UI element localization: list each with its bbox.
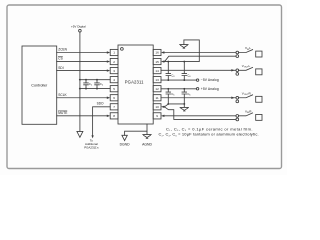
svg-text:C2: C2 [100, 82, 104, 87]
svg-text:14: 14 [155, 69, 159, 73]
jack VinR [236, 109, 262, 120]
pin 11 [153, 95, 161, 101]
svg-text:1: 1 [113, 51, 115, 55]
svg-text:C6: C6 [187, 92, 191, 97]
svg-text:VOUTR: VOUTR [242, 91, 252, 96]
svg-text:6: 6 [113, 96, 115, 100]
svg-text:SDO: SDO [97, 101, 104, 105]
wire VA- rail pin 13 [161, 78, 219, 82]
wire MUTE [57, 111, 110, 117]
arrow to additional supply [77, 131, 83, 137]
svg-text:VINL: VINL [245, 46, 251, 51]
svg-text:SCLK: SCLK [58, 93, 67, 97]
svg-text:+5V Digital: +5V Digital [71, 25, 86, 29]
svg-text:C2, C4, C6 = 10µF tantalum or: C2, C4, C6 = 10µF tantalum or aluminum e… [159, 132, 259, 138]
capacitor C3 [166, 62, 175, 82]
pin 9 [153, 113, 161, 119]
capacitor C1 [84, 79, 93, 90]
svg-text:PGA2311's: PGA2311's [84, 146, 99, 150]
wire SDI [57, 66, 110, 72]
svg-text:10: 10 [155, 105, 159, 109]
svg-text:−5V Analog: −5V Analog [201, 78, 219, 82]
wire CS [57, 57, 110, 63]
ground analog right [180, 104, 188, 111]
wire pin16 to input jack L [161, 51, 236, 53]
svg-text:9: 9 [156, 114, 158, 118]
pin 3 [110, 68, 118, 74]
jack VoutL [236, 64, 262, 75]
svg-text:Controller: Controller [31, 84, 48, 88]
capacitor C2 [95, 79, 104, 90]
svg-text:15: 15 [155, 60, 159, 64]
node R3-C5 [167, 88, 169, 90]
wire pin 9 to input jack R [161, 115, 236, 117]
svg-text:12: 12 [155, 87, 159, 91]
svg-text:CS: CS [58, 57, 62, 61]
node at DGND rail [79, 88, 81, 90]
border frame [7, 5, 282, 169]
pin 2 [110, 58, 118, 64]
ground AGND [142, 131, 152, 146]
pin 16 [153, 49, 161, 55]
wire jack L shunt to pin 15 [161, 56, 236, 63]
capacitor C4 [182, 62, 191, 82]
pin 15 [153, 58, 161, 64]
svg-text:16: 16 [155, 51, 159, 55]
svg-text:ZCEN: ZCEN [58, 48, 67, 52]
svg-text:C1: C1 [89, 82, 93, 87]
wire AGND rail R1 [165, 40, 200, 62]
svg-text:4: 4 [113, 78, 115, 82]
node at +5V rail [79, 79, 81, 81]
pin 6 [110, 95, 118, 101]
ground analog top [180, 40, 188, 48]
controller box [22, 46, 57, 124]
wire ZCEN [57, 48, 110, 54]
svg-text:VINR: VINR [245, 109, 252, 114]
svg-text:SDI: SDI [58, 66, 63, 70]
pin 7 [110, 104, 118, 110]
IC U1 PGA2311 [118, 45, 153, 124]
jack VoutR [236, 91, 262, 102]
svg-text:C5: C5 [171, 92, 175, 97]
svg-text:5: 5 [113, 87, 115, 91]
wire pin 14 to output jack L [161, 69, 236, 71]
capacitor C6 [182, 89, 191, 105]
label To Additional PGA2311's [84, 139, 99, 150]
svg-text:13: 13 [155, 78, 159, 82]
wire ground stub under IC [125, 124, 147, 135]
wire VD+ rail to pin 4 [80, 79, 110, 81]
svg-text:PGA2311: PGA2311 [125, 80, 144, 85]
jack VinL [236, 46, 262, 57]
pin 1 [110, 49, 118, 55]
svg-text:8: 8 [113, 114, 115, 118]
svg-text:3: 3 [113, 69, 115, 73]
svg-text:C3: C3 [171, 74, 175, 79]
pin 5 [110, 86, 118, 92]
node R1-C3 [167, 61, 169, 63]
svg-text:AGND: AGND [142, 142, 152, 146]
pin 4 [110, 77, 118, 83]
svg-text:VOUTL: VOUTL [242, 64, 251, 69]
wire SCLK [57, 93, 110, 99]
pin 10 [153, 104, 161, 110]
wire pin 11 to output jack R [161, 97, 236, 99]
node R1-C4 [183, 61, 185, 63]
pin 14 [153, 68, 161, 74]
capacitor C5 [166, 89, 175, 105]
svg-text:2: 2 [113, 60, 115, 64]
svg-text:11: 11 [156, 96, 159, 100]
wire AGND rail R4 to pin 10 [161, 104, 184, 108]
pin 13 [153, 77, 161, 83]
wire jack R shunt to pin 10 [164, 107, 236, 120]
+5V Digital supply [71, 25, 86, 132]
svg-text:DGND: DGND [120, 142, 131, 146]
wire DGND rail to pin 5 [80, 88, 110, 90]
svg-text:7: 7 [113, 105, 115, 109]
note capacitor values [159, 127, 259, 138]
pin 8 [110, 113, 118, 119]
ground DGND [120, 135, 131, 146]
svg-text:MUTE: MUTE [58, 111, 67, 115]
pin 12 [153, 86, 161, 92]
wire VA+ rail pin 12 [161, 87, 219, 91]
node R3-C6 [183, 88, 185, 90]
svg-text:C4: C4 [187, 74, 191, 79]
svg-text:+5V Analog: +5V Analog [201, 87, 219, 91]
wire SDO [91, 101, 110, 138]
